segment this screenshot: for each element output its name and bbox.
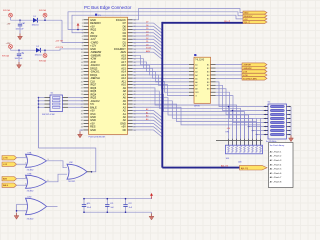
junction — [228, 106, 230, 108]
wire S1 pin 4 — [39, 106, 45, 108]
wire diode D2 out — [40, 49, 84, 50]
wire bus U line 6 — [133, 107, 261, 145]
svg-text:A2: A2 — [146, 108, 148, 111]
wire U1 B5 to port — [216, 77, 243, 79]
svg-text:15: 15 — [81, 65, 83, 67]
svg-text:C18: C18 — [21, 53, 26, 55]
wire -12V feed — [62, 20, 84, 42]
wire data row 7 — [133, 42, 162, 49]
svg-text:A0 - Patch 1: A0 - Patch 1 — [270, 150, 282, 153]
wire bus U line 1 — [133, 91, 241, 140]
svg-text:2: 2 — [82, 23, 83, 25]
wire cap C20 stems — [83, 199, 85, 205]
svg-text:A5 - Patch 6: A5 - Patch 6 — [270, 172, 282, 175]
wire S1 out 4 — [68, 106, 84, 108]
power port PWR3 — [9, 45, 13, 49]
capacitor C22 — [123, 205, 127, 207]
svg-text:.1uF: .1uF — [110, 207, 115, 209]
svg-text:GND: GND — [90, 128, 96, 132]
wire data row 1 — [133, 23, 162, 30]
wire pullup 2 — [236, 115, 238, 145]
wire S1 pin 1 — [39, 97, 45, 99]
wire resistor common rail — [216, 140, 263, 142]
svg-text:PC Bus Edge Connector: PC Bus Edge Connector — [84, 5, 132, 10]
svg-text:4: 4 — [82, 29, 83, 31]
wire vcc stem — [151, 197, 153, 199]
junction — [107, 198, 109, 200]
wire switch row 7 feed — [257, 134, 269, 136]
svg-text:C20: C20 — [87, 203, 90, 205]
svg-text:A1: A1 — [195, 64, 197, 67]
svg-text:C21: C21 — [110, 203, 113, 205]
port -IOW — [242, 73, 267, 77]
svg-text:22: 22 — [81, 88, 83, 90]
wire bus line A18 to U2 — [133, 59, 190, 68]
svg-text:20: 20 — [81, 81, 83, 83]
wire pullup 0 — [228, 107, 230, 146]
wire bus U line 2 — [133, 94, 245, 140]
svg-text:21: 21 — [81, 85, 83, 87]
wire data row 6 — [133, 39, 162, 46]
svg-text:A3: A3 — [195, 70, 197, 73]
wire pullup 7 — [256, 118, 258, 145]
svg-text:D1: D1 — [33, 16, 36, 18]
svg-text:9V0.5A: 9V0.5A — [3, 9, 10, 12]
junction — [252, 130, 254, 132]
svg-text:D0: D0 — [146, 44, 148, 46]
wire U1 B4 to port — [216, 74, 243, 76]
wire U1 out 0 to switch — [216, 82, 269, 107]
svg-text:B2: B2 — [207, 68, 209, 70]
wire IRQ2 wrap — [68, 12, 243, 30]
svg-text:10: 10 — [81, 49, 83, 51]
svg-text:11: 11 — [81, 52, 83, 54]
ground — [289, 135, 294, 141]
svg-text:29: 29 — [81, 110, 83, 112]
svg-text:9V0.5A: 9V0.5A — [39, 60, 46, 63]
wire bus line A17 to U2 — [133, 62, 190, 72]
wire bus line A12 to U2 — [133, 78, 190, 89]
svg-text:A4 - Patch 5: A4 - Patch 5 — [270, 168, 282, 171]
svg-text:74LS245: 74LS245 — [195, 60, 205, 62]
port -IOR — [2, 162, 17, 166]
ground — [18, 34, 23, 40]
port RESDRV — [243, 14, 267, 18]
resistor network RP1 pins — [228, 139, 230, 145]
wire bus line A16 to U2 — [133, 65, 190, 75]
wire bus line A15 to U2 — [133, 68, 190, 78]
svg-text:16: 16 — [81, 68, 83, 70]
wire cap rail top — [84, 198, 152, 200]
port D[0..7] — [243, 21, 267, 25]
power port PWR1 — [9, 13, 13, 17]
junction — [91, 171, 93, 173]
wire U1 out 1 to switch — [216, 85, 269, 110]
wire power row2 — [11, 49, 37, 51]
svg-text:D1: D1 — [146, 41, 148, 43]
svg-text:B1: B1 — [207, 65, 209, 67]
wire addr row 33 — [133, 127, 162, 134]
svg-text:4: 4 — [25, 177, 26, 179]
port -SMEMW — [242, 66, 267, 70]
wire switch row 6 feed — [253, 130, 269, 132]
svg-text:33: 33 — [81, 123, 83, 125]
wire addr row 28 — [133, 111, 162, 118]
bus D[0..7] horizontal — [162, 22, 243, 24]
wire port to U3A in2 — [17, 163, 28, 165]
svg-text:B8: B8 — [207, 89, 209, 91]
svg-text:3: 3 — [82, 26, 83, 28]
wire pullup 3 — [240, 115, 242, 145]
wire select net — [39, 148, 96, 172]
wire addr row 32 — [133, 123, 162, 130]
wire bus line A13 to U2 — [133, 75, 190, 85]
svg-text:A5: A5 — [195, 77, 197, 80]
svg-text:18: 18 — [81, 75, 83, 77]
wire U1 B1 to port — [216, 64, 243, 66]
wire bus line A11 to U2 — [133, 81, 190, 92]
wire data row 8 — [133, 46, 162, 53]
wire addr row 29 — [133, 114, 162, 121]
junction — [83, 198, 85, 200]
junction — [77, 29, 79, 31]
wire U3B out — [47, 174, 68, 182]
svg-text:A0: A0 — [146, 115, 148, 118]
svg-text:.1uF: .1uF — [128, 207, 133, 209]
svg-text:A6: A6 — [195, 81, 197, 84]
svg-text:A7: A7 — [195, 84, 197, 87]
junction — [16, 210, 18, 212]
svg-text:C22: C22 — [128, 203, 131, 205]
bus A[0..19] horizontal — [162, 167, 239, 169]
svg-text:A6 - Patch 7: A6 - Patch 7 — [270, 176, 282, 179]
wire row 10 — [133, 52, 162, 59]
svg-text:74LS02: 74LS02 — [27, 219, 35, 221]
svg-text:1N4004: 1N4004 — [35, 55, 43, 57]
svg-text:PCB 62/36 EDGE: PCB 62/36 EDGE — [89, 137, 106, 139]
wire S1 pin 3 — [39, 103, 45, 105]
wire cap rail bottom — [84, 211, 152, 213]
wire pullup 8 — [260, 118, 262, 145]
svg-text:1: 1 — [82, 20, 83, 22]
wire S1 out 1 — [68, 97, 84, 99]
wire bus U line 3 — [133, 98, 249, 141]
svg-text:A[0..19]: A[0..19] — [221, 165, 228, 168]
svg-text:A2 - Patch 3: A2 - Patch 3 — [270, 159, 282, 162]
wire addr row 31 — [133, 120, 162, 127]
svg-text:+12V TM: +12V TM — [55, 47, 63, 49]
svg-text:10uF: 10uF — [87, 207, 92, 209]
junction — [38, 106, 40, 108]
svg-text:74LS32: 74LS32 — [68, 181, 76, 183]
diode D2 — [35, 46, 43, 57]
svg-text:32: 32 — [81, 120, 83, 122]
wire U1 B3 to port — [216, 71, 243, 73]
svg-text:S2: S2 — [268, 102, 271, 104]
diode D1 — [32, 16, 40, 27]
svg-text:AEN: AEN — [3, 178, 8, 181]
wire power row1 — [11, 19, 34, 21]
wire data row 2 — [133, 26, 162, 33]
svg-text:12: 12 — [81, 55, 83, 57]
svg-text:7: 7 — [82, 39, 83, 41]
svg-text:DIP20: DIP20 — [194, 105, 201, 107]
svg-text:31: 31 — [81, 117, 83, 119]
svg-text:D2: D2 — [146, 38, 148, 40]
junction — [38, 97, 40, 99]
wire cap C17 stem — [19, 20, 21, 23]
svg-text:A3 - Patch 4: A3 - Patch 4 — [270, 163, 282, 166]
or-gate U3A — [26, 154, 47, 167]
svg-text:BALE: BALE — [3, 184, 9, 187]
svg-text:30: 30 — [81, 114, 83, 116]
svg-text:62: 62 — [134, 20, 136, 22]
svg-text:10K: 10K — [226, 158, 230, 160]
wire U1 out 3 to switch — [216, 92, 269, 118]
svg-text:D6: D6 — [146, 25, 148, 27]
svg-text:34: 34 — [81, 127, 83, 129]
svg-text:13: 13 — [81, 59, 83, 61]
wire U1 B2 to port — [216, 67, 243, 69]
svg-text:Sw Patch Array: Sw Patch Array — [270, 144, 286, 147]
svg-text:9V0.5A: 9V0.5A — [39, 9, 46, 12]
svg-text:1N4004: 1N4004 — [32, 25, 40, 27]
power +5V arrow top — [77, 26, 79, 30]
svg-text:C17: C17 — [22, 23, 27, 25]
svg-text:D[0..7]: D[0..7] — [224, 21, 231, 23]
svg-text:B7: B7 — [207, 85, 209, 87]
switch array S2 — [268, 104, 287, 139]
svg-text:-12V TM: -12V TM — [55, 41, 63, 43]
svg-text:A0: A0 — [146, 118, 148, 121]
wire pullup 6 — [252, 118, 254, 145]
svg-text:D2: D2 — [36, 46, 39, 48]
ground — [17, 62, 22, 68]
junction — [248, 126, 250, 128]
capacitor C17 — [18, 22, 25, 26]
svg-text:14: 14 — [81, 62, 83, 64]
svg-text:B3: B3 — [207, 71, 209, 73]
wire cap C18 stem — [18, 50, 20, 53]
port -IOR — [242, 70, 267, 74]
wire row 9 — [133, 49, 162, 56]
wire U3D tie — [17, 203, 28, 205]
svg-text:A8: A8 — [195, 88, 197, 91]
wire -5V wrap — [72, 15, 243, 33]
svg-text:U3C: U3C — [69, 162, 74, 164]
junction — [19, 19, 21, 21]
wire port to U3B in2 — [17, 184, 28, 186]
port A[0..19] — [240, 165, 268, 170]
wire data row 3 — [133, 30, 162, 37]
svg-text:A7 - Patch 8: A7 - Patch 8 — [270, 181, 282, 184]
wire pullup 1 — [232, 111, 234, 146]
wire U3A out — [47, 161, 68, 168]
ground — [149, 214, 154, 220]
wire bus U line 0 — [133, 88, 237, 141]
svg-text:6: 6 — [82, 36, 83, 38]
connector P1 pin stubs — [84, 19, 89, 21]
svg-text:D[0..7]: D[0..7] — [244, 22, 250, 24]
wire U3D out — [47, 206, 58, 208]
wire addr row 30 — [133, 117, 162, 124]
junction — [44, 19, 46, 21]
wire port to U3A in1 — [17, 157, 28, 159]
svg-text:A2: A2 — [195, 67, 197, 70]
capacitor C18 — [17, 52, 24, 56]
svg-text:IOCH: IOCH — [146, 48, 151, 50]
power port PWR4 — [43, 54, 47, 58]
or-gate U3C — [67, 164, 87, 179]
svg-text:24: 24 — [81, 94, 83, 96]
svg-text:A1 - Patch 2: A1 - Patch 2 — [270, 155, 282, 158]
wire gnd stem — [151, 212, 153, 214]
svg-text:23: 23 — [81, 91, 83, 93]
wire addr row 34 — [133, 130, 162, 137]
svg-text:9V0.5A: 9V0.5A — [2, 55, 9, 58]
wire data row 5 — [133, 36, 162, 43]
wire pullup 4 — [244, 115, 246, 145]
wire U3D tie vert — [16, 204, 18, 212]
ground — [78, 132, 83, 138]
wire S1 out 2 — [68, 100, 84, 102]
wire port to U3B in1 — [17, 178, 28, 180]
wire switch row 5 feed — [249, 126, 269, 128]
or-gate U3D — [26, 198, 47, 215]
wire bus line A19 to U2 — [133, 55, 190, 64]
DIP switch S1 — [50, 95, 63, 112]
wire pullup 5 — [248, 115, 250, 145]
capacitor C20 — [82, 202, 89, 206]
wire diode D1 out — [37, 19, 62, 21]
svg-text:17: 17 — [81, 72, 83, 74]
svg-text:RP1: RP1 — [226, 131, 230, 133]
svg-text:D4: D4 — [146, 31, 148, 33]
bus vertical — [161, 22, 163, 168]
connector P1 body — [89, 17, 128, 134]
wire cap C18 to gnd — [18, 56, 20, 62]
svg-text:IOCHRDY AEN: IOCHRDY AEN — [243, 77, 257, 80]
svg-text:19: 19 — [81, 78, 83, 80]
table Sw Patch Array — [269, 143, 294, 188]
wire U1 out 2 to switch — [216, 89, 269, 115]
svg-text:B5: B5 — [207, 78, 209, 80]
svg-text:-IOR: -IOR — [3, 164, 8, 166]
wire U1 out 4 to switch — [216, 96, 269, 123]
junction — [256, 134, 258, 136]
resistor network RP1 — [226, 145, 263, 154]
wire bus U line 4 — [133, 101, 253, 145]
port BALE — [2, 183, 17, 187]
wire bus line A10 to U2 — [133, 85, 190, 96]
svg-text:+9V: +9V — [7, 24, 11, 26]
svg-text:D7: D7 — [146, 22, 148, 24]
wire bus line A14 to U2 — [133, 72, 190, 82]
svg-text:9: 9 — [82, 46, 83, 48]
junction — [38, 100, 40, 102]
wire cap C21 stems — [106, 199, 108, 205]
wire S1 pin 2 — [39, 100, 45, 102]
port +5V — [243, 17, 267, 21]
power +5V arrow — [151, 196, 153, 199]
wire cap C22 stems — [125, 199, 127, 205]
wire switch commons — [290, 107, 292, 136]
wire S1 common rail — [38, 98, 40, 148]
svg-text:D0: D0 — [123, 128, 127, 132]
svg-text:D3: D3 — [146, 35, 148, 37]
svg-text:D5: D5 — [146, 28, 148, 30]
power port PWR2 — [43, 13, 47, 17]
wire data row 4 — [133, 33, 162, 40]
port GND — [243, 11, 267, 15]
wire S1 out 3 — [68, 103, 84, 105]
svg-text:5: 5 — [82, 33, 83, 35]
svg-text:8: 8 — [82, 42, 83, 44]
wire IOCHCK over-top — [133, 9, 244, 20]
port -SMEMR — [242, 63, 267, 67]
junction — [38, 103, 40, 105]
wire bus U line 5 — [133, 104, 257, 145]
svg-text:S1: S1 — [51, 93, 54, 95]
wire cap to gnd — [19, 26, 21, 34]
IC U1 74LS245 — [194, 57, 211, 103]
svg-text:74LS32: 74LS32 — [27, 190, 35, 192]
svg-text:AEN: AEN — [146, 50, 151, 53]
svg-text:SW DIP-4 SM: SW DIP-4 SM — [42, 114, 55, 116]
junction — [44, 49, 46, 51]
svg-text:A1: A1 — [146, 111, 148, 114]
ground — [14, 213, 19, 219]
svg-text:-IOW: -IOW — [3, 158, 8, 160]
port -IOW — [2, 156, 17, 160]
svg-text:+5V: +5V — [227, 128, 231, 130]
junction — [18, 49, 20, 51]
svg-text:1: 1 — [25, 156, 26, 158]
junction — [125, 198, 127, 200]
svg-text:B6: B6 — [207, 82, 209, 84]
port AEN — [2, 177, 17, 181]
or-gate U3B — [26, 175, 47, 188]
wire U3D tie2 — [17, 210, 28, 212]
junction — [232, 110, 234, 112]
svg-text:14B: 14B — [238, 162, 242, 164]
svg-text:74LS32: 74LS32 — [27, 169, 35, 171]
wire GND pin — [80, 130, 84, 132]
port IOCHRDY AEN — [242, 77, 267, 81]
svg-text:A[0..19]: A[0..19] — [241, 167, 248, 170]
wire U3C out stub — [87, 171, 92, 173]
capacitor C21 — [105, 205, 109, 207]
